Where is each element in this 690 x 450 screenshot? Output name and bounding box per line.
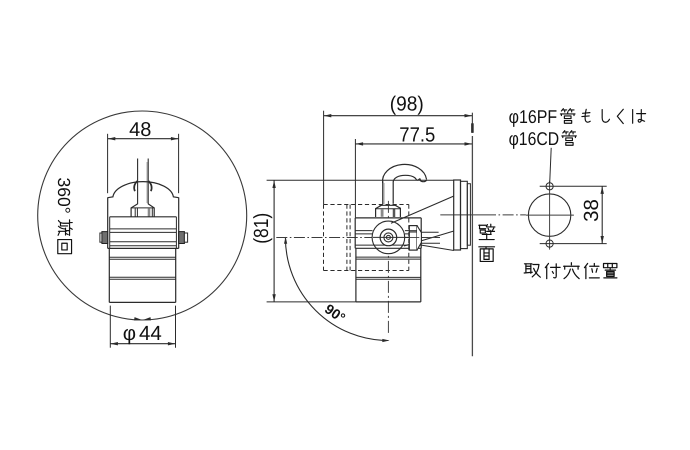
svg-text:38: 38: [580, 199, 603, 222]
svg-text:(98): (98): [390, 93, 424, 116]
svg-text:φ44: φ44: [123, 322, 162, 345]
svg-text:φ16CD: φ16CD: [509, 128, 559, 149]
svg-text:48: 48: [129, 119, 151, 141]
svg-text:77.5: 77.5: [399, 123, 435, 146]
svg-text:φ16PF: φ16PF: [509, 106, 557, 127]
svg-text:360°: 360°: [54, 178, 74, 214]
svg-text:(81): (81): [250, 213, 273, 244]
